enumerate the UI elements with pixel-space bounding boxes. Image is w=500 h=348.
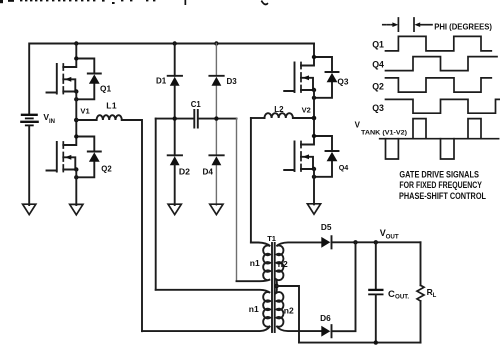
svg-text:n2: n2: [278, 259, 288, 269]
svg-text:D5: D5: [321, 222, 332, 232]
svg-text:L: L: [433, 293, 437, 299]
svg-text:Q1: Q1: [100, 83, 111, 93]
svg-text:D3: D3: [227, 77, 238, 86]
svg-text:Q4: Q4: [339, 163, 349, 172]
svg-text:OUT.: OUT.: [395, 294, 409, 301]
svg-text:Q2: Q2: [372, 82, 384, 92]
svg-text:Q4: Q4: [372, 60, 384, 70]
svg-text:n1: n1: [249, 304, 259, 314]
svg-text:n2: n2: [284, 306, 294, 316]
svg-text:Q3: Q3: [337, 77, 348, 87]
svg-text:V2: V2: [302, 106, 311, 115]
svg-text:V: V: [355, 120, 361, 129]
svg-text:D4: D4: [203, 167, 214, 176]
svg-text:Q1: Q1: [372, 39, 384, 49]
svg-text:D6: D6: [320, 313, 331, 323]
svg-text:T1: T1: [267, 234, 276, 243]
svg-text:FOR FIXED FREQUENCY: FOR FIXED FREQUENCY: [399, 180, 482, 190]
svg-text:PHI (DEGREES): PHI (DEGREES): [434, 22, 492, 31]
svg-text:TANK (V1-V2): TANK (V1-V2): [361, 130, 407, 137]
svg-text:GATE DRIVE SIGNALS: GATE DRIVE SIGNALS: [399, 170, 479, 180]
svg-text:Q2: Q2: [101, 165, 112, 174]
svg-text:PHASE-SHIFT CONTROL: PHASE-SHIFT CONTROL: [399, 191, 486, 201]
svg-text:C1: C1: [191, 100, 202, 109]
svg-text:OUT: OUT: [386, 233, 399, 240]
svg-text:C: C: [388, 289, 395, 300]
svg-text:IN: IN: [49, 119, 55, 125]
svg-text:D2: D2: [179, 166, 190, 176]
svg-text:n1: n1: [250, 258, 260, 268]
svg-text:L2: L2: [274, 105, 284, 114]
svg-text:L1: L1: [106, 101, 117, 111]
svg-text:Q3: Q3: [372, 103, 384, 113]
svg-text:V1: V1: [80, 107, 90, 116]
svg-text:D1: D1: [156, 77, 167, 86]
